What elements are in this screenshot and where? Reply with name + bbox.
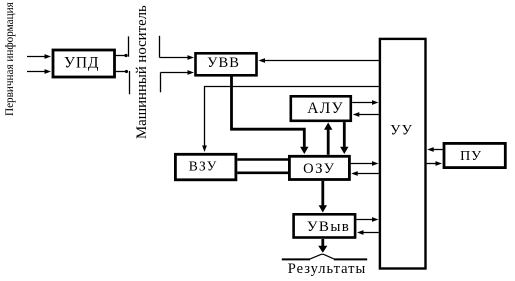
wire УВыв to УУ (arrow at УУ)	[357, 217, 379, 222]
wire thick bus УВВ to ОЗУ	[232, 75, 309, 154]
wire ПУ to УУ (arrow at УУ)	[427, 147, 442, 152]
wire break bar to УВВ bottom	[161, 70, 195, 92]
block УВВ	[196, 53, 257, 75]
block ВЗУ	[175, 154, 236, 180]
brace over Результаты right bar	[334, 258, 367, 260]
svg-text:ВЗУ: ВЗУ	[189, 159, 218, 174]
wire ОЗУ to УУ (arrow at УУ)	[351, 161, 379, 166]
svg-text:Машинный носитель: Машинный носитель	[134, 5, 150, 139]
wire УПД right bottom with break bar	[116, 70, 130, 94]
brace over Результаты left bar	[282, 258, 310, 260]
block АЛУ	[291, 96, 351, 121]
wire arrow into УПД bottom	[27, 69, 51, 74]
svg-text:УПД: УПД	[64, 54, 99, 71]
svg-text:УВыв: УВыв	[307, 219, 350, 235]
svg-text:УВВ: УВВ	[207, 55, 240, 71]
wire thick bus ВЗУ-ОЗУ top	[237, 158, 289, 161]
wire УУ to УВыв (arrow at УВыв)	[357, 230, 379, 235]
wire thick ОЗУ to АЛУ (arrow up at АЛУ)	[324, 123, 332, 155]
svg-text:ПУ: ПУ	[460, 149, 482, 164]
block УВыв	[294, 214, 356, 237]
wire УПД right top with break bar	[116, 36, 129, 57]
wire thick bus ВЗУ-ОЗУ bottom	[237, 172, 289, 175]
wire УУ to ОЗУ (arrow at ОЗУ)	[351, 171, 379, 176]
wire УУ to УВВ (arrow at УВВ)	[259, 58, 379, 63]
wire thick УВыв to Результаты (arrow down)	[318, 239, 327, 253]
svg-text:Первичная информация: Первичная информация	[4, 2, 16, 116]
svg-text:АЛУ: АЛУ	[307, 100, 344, 117]
block ПУ	[444, 143, 505, 167]
brace over Результаты tent	[310, 254, 335, 259]
wire АЛУ to УУ (arrow at УУ)	[352, 100, 378, 105]
wire break bar to УВВ top	[160, 36, 195, 60]
svg-text:ОЗУ: ОЗУ	[303, 161, 335, 177]
block УУ	[380, 39, 426, 269]
wire УУ to ВЗУ (corner under УВВ, arrow down into ВЗУ)	[202, 87, 379, 153]
wire thick АЛУ to ОЗУ (arrow down at ОЗУ)	[340, 122, 348, 154]
wire arrow into УПД top	[27, 54, 51, 59]
svg-text:УУ: УУ	[390, 123, 413, 139]
svg-text:Результаты: Результаты	[288, 261, 366, 276]
wire УУ to ПУ (arrow at ПУ)	[427, 161, 442, 166]
block ОЗУ	[289, 156, 349, 179]
block УПД	[53, 50, 115, 77]
wire УУ to АЛУ (arrow at АЛУ)	[353, 112, 379, 117]
wire thick ОЗУ to УВыв (arrow down)	[319, 181, 327, 213]
